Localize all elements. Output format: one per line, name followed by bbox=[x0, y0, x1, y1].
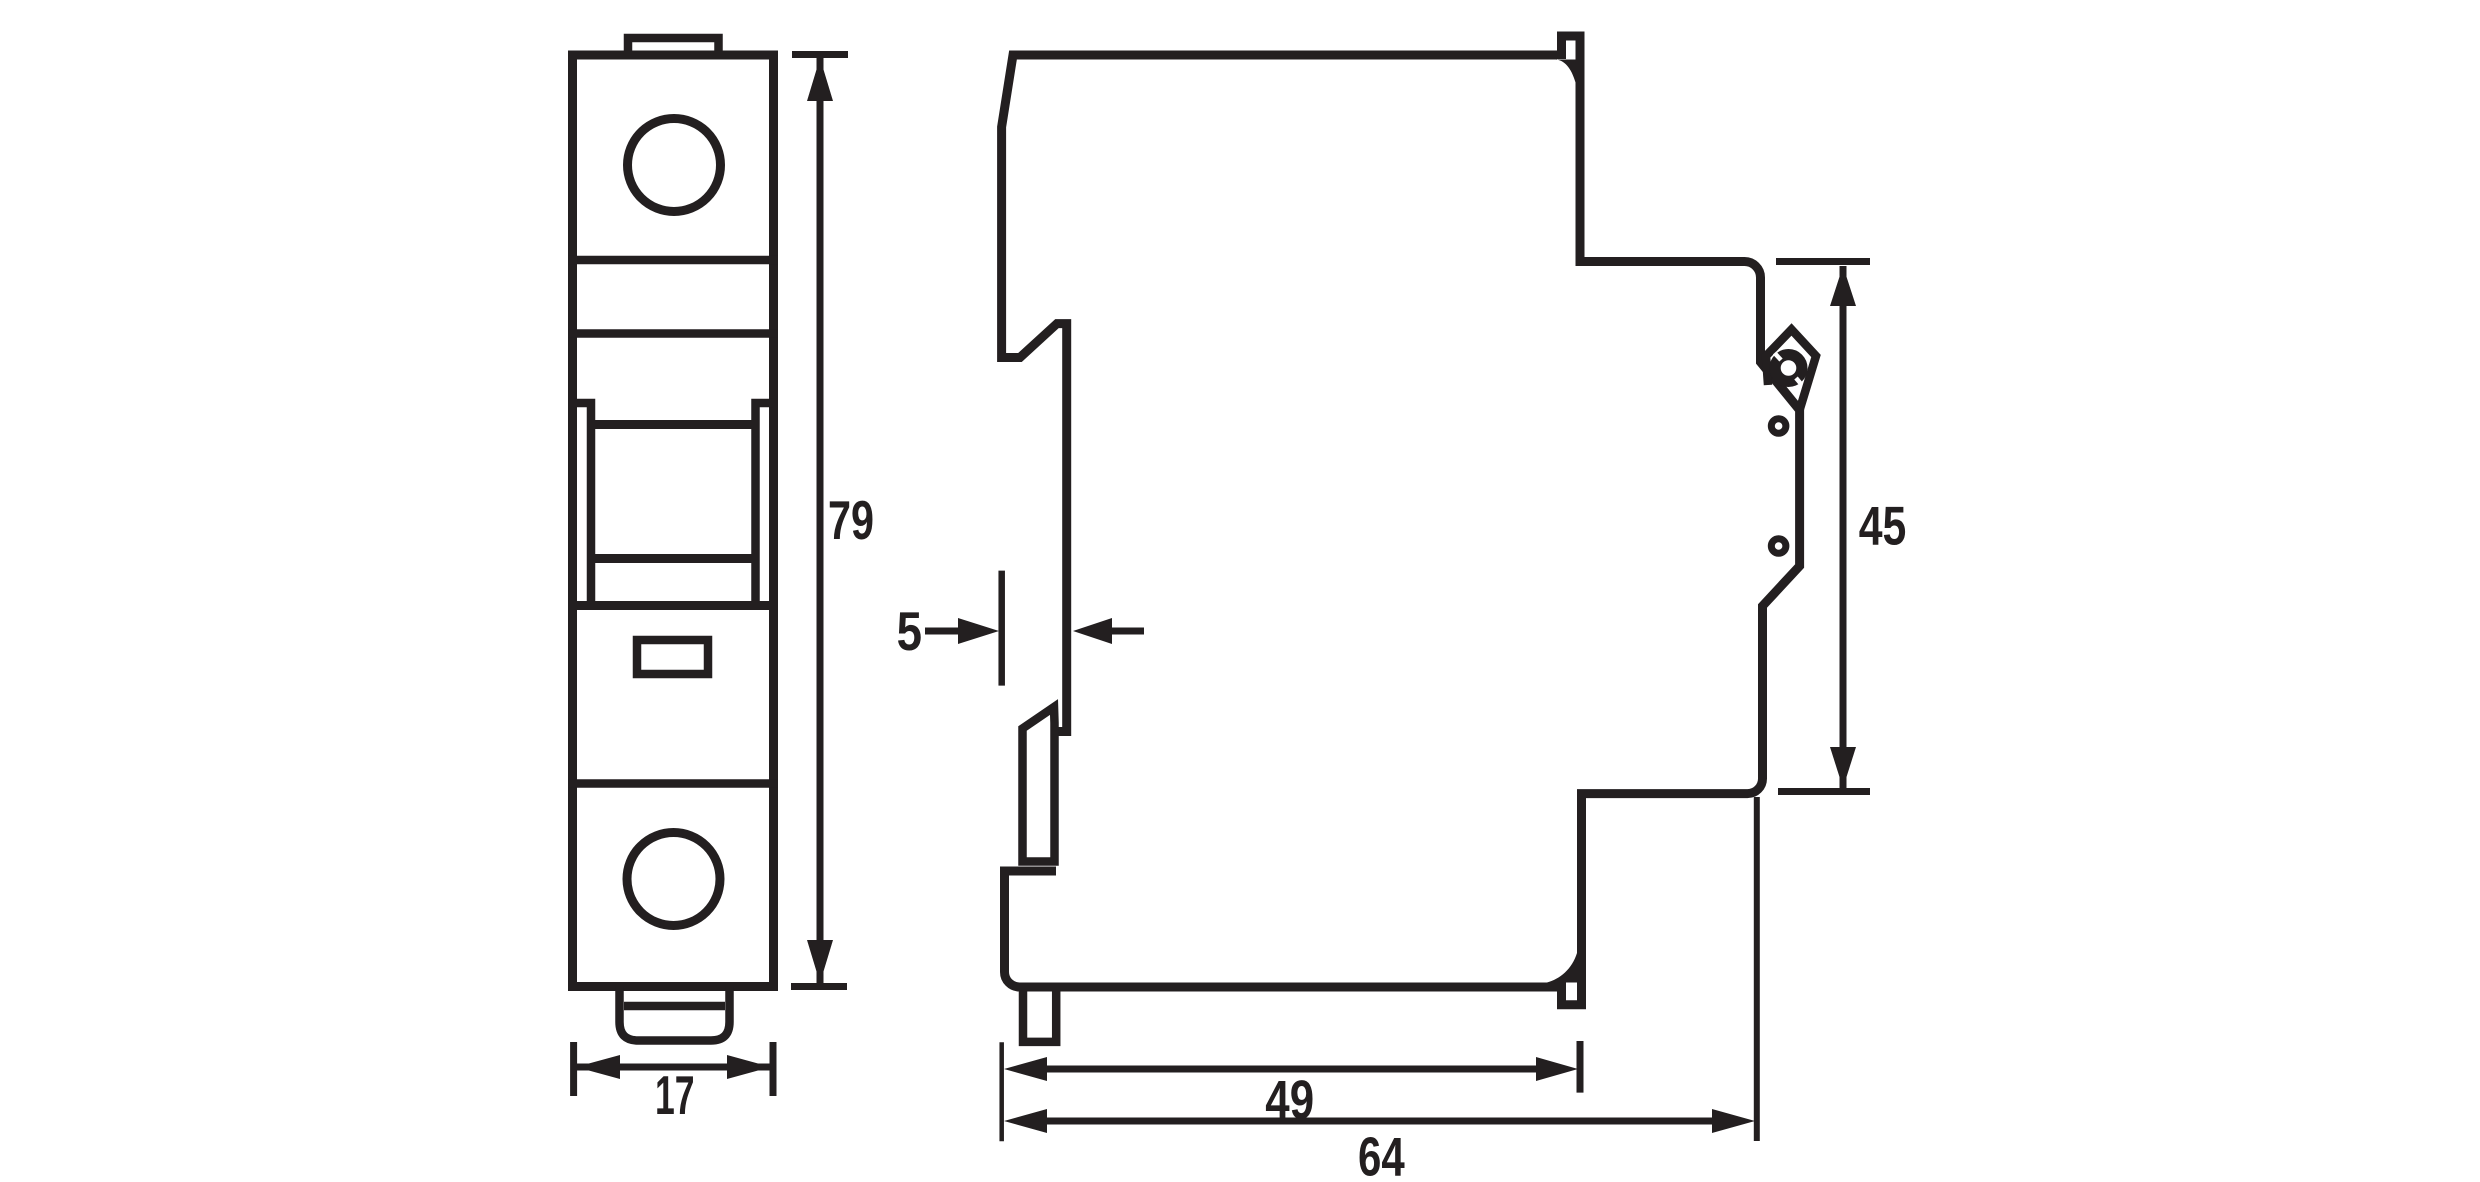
dim 79: top tick bbox=[792, 51, 848, 58]
front view: toggle frame top bbox=[591, 420, 756, 429]
front view: top terminal screw bbox=[628, 119, 721, 212]
svg-text:5: 5 bbox=[897, 600, 922, 662]
front view: body outline bbox=[573, 55, 774, 987]
dim 45: top tick bbox=[1776, 258, 1870, 265]
front view: label window bbox=[637, 640, 708, 674]
dim 79: arrow down bbox=[807, 940, 833, 983]
dim 49: arrow left bbox=[1004, 1057, 1047, 1081]
dim 17: left tick bbox=[570, 1042, 577, 1096]
front view: toggle frame bottom bbox=[591, 554, 756, 563]
front view: separator line A bbox=[568, 256, 778, 265]
dim 49: arrow right bbox=[1536, 1057, 1578, 1081]
front view: bottom terminal screw bbox=[627, 833, 720, 926]
side view: rivet diamond bbox=[1766, 330, 1816, 411]
dim 17: arrow right bbox=[727, 1055, 771, 1079]
dim 45: arrow down bbox=[1830, 747, 1856, 788]
front view: separator line C bbox=[568, 779, 778, 788]
side view: hook, right side, shelves, bottom outline bbox=[1005, 36, 1800, 1005]
dim 5: right line bbox=[1112, 628, 1144, 635]
front view: toggle section bottom line bbox=[568, 601, 778, 610]
svg-text:64: 64 bbox=[1358, 1126, 1405, 1182]
front view: toggle left ear bbox=[573, 403, 592, 606]
dim 17: line bbox=[576, 1064, 771, 1071]
dim 5: extension tick bbox=[998, 571, 1005, 686]
front view: bottom tab slot line bbox=[624, 1002, 725, 1011]
side view: small rivet circle 1 bbox=[1771, 419, 1786, 434]
side view: inner fillet bottom-right bbox=[1547, 953, 1577, 983]
dim 49/64: left extension line bbox=[999, 1042, 1004, 1141]
side view: small rivet circle 2 bbox=[1771, 539, 1786, 554]
side view: rivet ring bbox=[1775, 355, 1802, 382]
dim 17: arrow left bbox=[576, 1055, 620, 1079]
dim 79: arrow up bbox=[807, 58, 833, 101]
svg-text:45: 45 bbox=[1859, 495, 1907, 557]
dim 64: right extension line bbox=[1754, 797, 1760, 1141]
side view: inner fillet top-right bbox=[1556, 60, 1576, 85]
dim 64: line bbox=[1047, 1118, 1712, 1125]
svg-text:17: 17 bbox=[655, 1064, 695, 1126]
dim 49: line bbox=[1047, 1066, 1536, 1073]
svg-text:79: 79 bbox=[828, 489, 874, 551]
svg-text:49: 49 bbox=[1265, 1069, 1314, 1131]
side view: DIN clip (movable latch) bbox=[1023, 707, 1055, 862]
dim 64: arrow right bbox=[1712, 1109, 1755, 1133]
side view: rivet ring slit lower-right bbox=[1796, 378, 1802, 385]
front view: separator line B bbox=[568, 329, 778, 338]
side view: rivet ring slit upper-left bbox=[1775, 353, 1782, 360]
dim 5: left line bbox=[925, 628, 958, 635]
dim 49: right tick bbox=[1577, 1041, 1584, 1093]
side view: DIN clip foot bbox=[1023, 991, 1056, 1042]
dim 5: left arrow bbox=[958, 618, 999, 644]
dim 64: arrow left bbox=[1004, 1109, 1047, 1133]
dim 5: right arrow bbox=[1073, 618, 1112, 644]
dim 45: bottom tick bbox=[1778, 788, 1870, 795]
front view: top mounting tab bbox=[628, 38, 719, 55]
dim 45: arrow up bbox=[1830, 266, 1856, 306]
dim 45: shaft bbox=[1840, 266, 1847, 788]
dim 17: right tick bbox=[770, 1042, 777, 1096]
front view: toggle right ear bbox=[756, 403, 774, 606]
side view: top edge, left face, front notch, rear vertical, nub bbox=[1002, 55, 1557, 732]
front view: bottom DIN tab bbox=[620, 987, 730, 1041]
dim 79: bottom tick bbox=[791, 983, 847, 990]
dim 79: shaft bbox=[817, 58, 824, 983]
